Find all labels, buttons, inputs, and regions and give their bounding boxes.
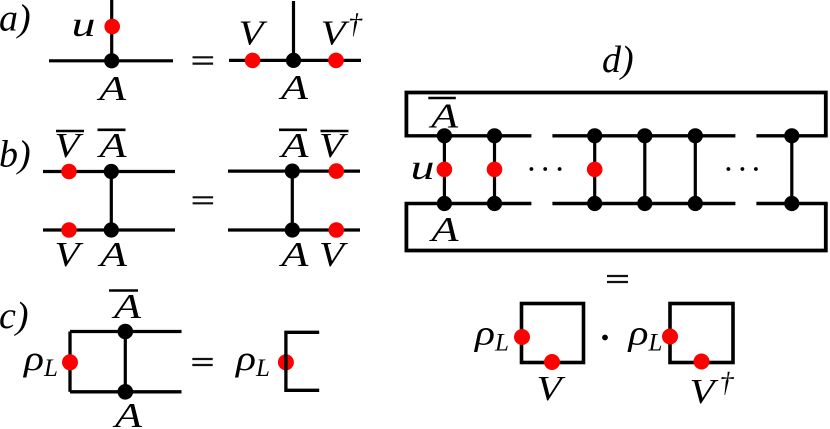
svg-text:A: A (97, 235, 127, 274)
svg-text:A: A (429, 210, 459, 249)
cdot between squares (602, 335, 608, 341)
label V-dagger (690, 368, 735, 412)
svg-text:A: A (111, 287, 141, 326)
wire d vertical 4 (643, 136, 646, 204)
box A (bottom MPS box) (406, 204, 825, 251)
gate u dot 3 (red) (587, 162, 603, 178)
tensor A (black dot) (286, 53, 301, 68)
svg-text:A: A (279, 235, 309, 274)
svg-text:†: † (720, 368, 735, 399)
svg-text:V: V (239, 14, 268, 53)
label A-bar (97, 126, 127, 165)
svg-text:V: V (319, 235, 348, 274)
label A-bar (109, 287, 142, 326)
density matrix rho-L (red dot) (62, 354, 78, 370)
svg-text:V: V (537, 369, 566, 408)
wire a horizontal (49, 59, 173, 62)
tensor A-bar dot 3 (black) (587, 128, 602, 143)
label V-bar (55, 126, 85, 165)
tensor V-bar (red dot) (329, 163, 345, 179)
svg-text:a): a) (0, 0, 31, 40)
V-dagger dot on bottom edge (red) (694, 354, 710, 370)
tensor A (black dot) (285, 222, 300, 237)
tensor A dot 6 (black) (784, 196, 799, 211)
tensor A dot 2 (black) (487, 196, 502, 211)
wire b-right bottom rail (228, 228, 360, 231)
equals d (607, 276, 628, 282)
V dot on bottom edge (red) (544, 354, 560, 370)
equals b (193, 197, 214, 203)
label V-dagger (321, 9, 363, 53)
wire d vertical 1 (443, 136, 446, 204)
cdots right (727, 167, 758, 171)
label V-bar right (319, 126, 349, 165)
square V-dagger (right) (670, 304, 733, 363)
wire c middle vertical (124, 332, 127, 392)
box A-bar (top MPS box) (406, 93, 825, 136)
tensor V (red dot) (329, 222, 345, 238)
isometry V-dagger (red dot) (328, 53, 344, 69)
svg-text:u: u (411, 148, 435, 187)
tensor A-bar dot 5 (black) (688, 128, 703, 143)
tensor A-bar (black dot) (104, 164, 119, 179)
tensor A-bar dot 1 (black) (437, 128, 452, 143)
wire d vertical 3 (593, 136, 596, 204)
svg-text:V: V (321, 14, 350, 53)
tensor A-bar dot 2 (black) (487, 128, 502, 143)
svg-text:ρL: ρL (23, 339, 58, 382)
wire d bottom rail segment 1 (405, 202, 532, 205)
isometry V (red dot) (245, 53, 261, 69)
wire c top (70, 330, 182, 333)
svg-text:ρL: ρL (474, 314, 509, 357)
tensor A dot 5 (black) (688, 196, 703, 211)
tensor A (black dot) (104, 53, 119, 68)
density matrix rho-L (red dot) (278, 354, 294, 370)
bracket wire c-right (286, 332, 319, 390)
svg-text:V: V (690, 372, 719, 411)
wire b bottom rail (43, 228, 175, 231)
tensor A-bar (black dot) (118, 324, 134, 340)
svg-text:A: A (278, 68, 308, 107)
label A-bar right (279, 126, 309, 165)
tensor V (red dot) (61, 222, 77, 238)
equals a (193, 57, 214, 63)
equals c (192, 359, 212, 365)
rho-L dot on left edge (red) (514, 329, 530, 345)
wire d vertical 2 (493, 136, 496, 204)
rho-L dot on left edge (red) (662, 329, 678, 345)
svg-text:A: A (97, 69, 127, 108)
wire a-right horizontal (229, 59, 361, 62)
wire d top rail segment 3 (756, 134, 827, 137)
wire d vertical 5 (694, 136, 697, 204)
svg-text:ρL: ρL (235, 339, 270, 382)
svg-text:c): c) (0, 295, 29, 337)
wire d top rail segment 2 (552, 134, 735, 137)
tensor A (black dot) (118, 384, 134, 400)
label A-bar in top box (428, 97, 459, 136)
svg-text:u: u (72, 5, 96, 44)
wire a-right vertical (292, 1, 295, 60)
tensor V-bar (red dot) (61, 164, 77, 180)
gate u dot 2 (red) (487, 162, 503, 178)
wire d bottom rail segment 2 (552, 202, 735, 205)
svg-text:A: A (97, 126, 127, 165)
wire d bottom rail segment 3 (756, 202, 827, 205)
tensor A (black dot) (104, 222, 119, 237)
gate u (red dot) (104, 19, 120, 35)
svg-text:ρL: ρL (627, 314, 662, 357)
tensor A-bar dot 4 (black) (637, 128, 652, 143)
tensor A dot 3 (black) (587, 196, 602, 211)
svg-text:A: A (112, 396, 142, 429)
wire b-right top rail (228, 170, 360, 173)
wire a vertical (110, 0, 113, 61)
square V (left) (522, 304, 584, 363)
wire b-right vertical (291, 171, 294, 230)
wire c bottom (70, 390, 182, 393)
wire d vertical 6 (790, 136, 793, 204)
svg-text:d): d) (602, 39, 634, 81)
svg-text:b): b) (0, 134, 31, 176)
wire b vertical (110, 172, 113, 231)
tensor A-bar dot 6 (black) (784, 128, 799, 143)
svg-text:†: † (348, 9, 363, 40)
tensor A dot 4 (black) (637, 196, 652, 211)
svg-text:A: A (429, 97, 459, 136)
tensor A-bar (black dot) (285, 164, 300, 179)
svg-text:V: V (55, 235, 84, 274)
gate u dot 1 (red) (437, 162, 453, 178)
svg-text:A: A (279, 126, 309, 165)
wire b top rail (43, 170, 175, 173)
wire c left edge (68, 332, 71, 392)
wire d top rail segment 1 (405, 134, 532, 137)
tensor A dot 1 (black) (437, 196, 452, 211)
cdots left (530, 167, 562, 171)
